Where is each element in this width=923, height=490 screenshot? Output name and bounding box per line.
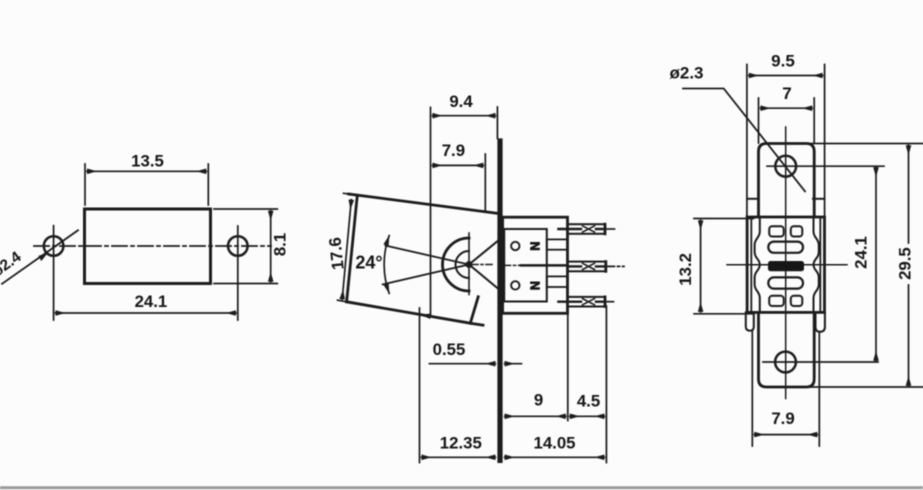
dimension 0.55 (panel thickness) — [429, 340, 521, 364]
rocker bezel (tilted frame) — [347, 194, 498, 325]
dimension 9.4 — [431, 92, 498, 315]
case bottom tab right — [816, 312, 825, 331]
vertical centerline (rear view) — [785, 127, 787, 399]
panel cutout rectangle — [85, 209, 211, 284]
angle arc with arrows — [383, 235, 389, 294]
terminal pin middle — [568, 262, 625, 272]
svg-text:N: N — [528, 281, 542, 290]
mounting hole top (rear view) — [767, 156, 884, 177]
svg-text:4.5: 4.5 — [577, 392, 600, 411]
terminal pin top — [558, 224, 614, 234]
case horizontal centerline — [727, 264, 847, 266]
oval slot upper — [768, 242, 803, 253]
svg-text:ø2.3: ø2.3 — [669, 64, 703, 83]
dimension 12.35 — [420, 308, 496, 463]
dimension 4.5 — [570, 306, 607, 463]
dimension 13.5 — [85, 152, 208, 206]
mounting hole right — [228, 226, 248, 320]
vent slot bottom left — [769, 296, 784, 306]
mounting hole left — [44, 226, 64, 320]
svg-text:14.05: 14.05 — [534, 434, 576, 453]
svg-text:9.5: 9.5 — [771, 52, 795, 71]
dimension 9 — [505, 307, 568, 421]
svg-text:7.9: 7.9 — [442, 141, 465, 160]
case bottom tab left — [746, 312, 754, 330]
dimension 7.9 (side view) — [433, 141, 486, 212]
horizontal centerline (left view) — [34, 245, 271, 247]
svg-text:0.55: 0.55 — [433, 340, 466, 359]
svg-text:7.9: 7.9 — [771, 409, 794, 428]
dimension 17.6 — [325, 193, 351, 302]
marking circle and letter lower — [511, 281, 541, 290]
dimension 24.1 (rear view) — [851, 167, 876, 360]
marking circle and letter upper — [511, 242, 541, 251]
label 24 degrees — [355, 253, 382, 273]
svg-text:N: N — [528, 242, 542, 251]
dimension 8.1 — [214, 209, 290, 284]
vent slot top left — [769, 226, 784, 236]
body centerline — [504, 264, 568, 266]
svg-text:24.1: 24.1 — [851, 236, 870, 269]
dimension 7 — [759, 84, 815, 143]
dimension 29.5 — [895, 145, 914, 386]
dimension 24.1 — [56, 292, 236, 313]
switch case rear outline — [747, 217, 824, 312]
svg-text:13.5: 13.5 — [131, 152, 164, 171]
terminal separator lower — [547, 276, 568, 287]
terminal pin bottom — [558, 297, 613, 307]
mounting plate lower part — [759, 312, 815, 387]
svg-text:12.35: 12.35 — [440, 434, 482, 453]
oval slot lower — [768, 277, 803, 288]
svg-text:24.1: 24.1 — [135, 292, 168, 311]
svg-text:9.4: 9.4 — [449, 92, 473, 111]
dimension 7.9 (rear view) — [752, 332, 819, 447]
page divider rule — [0, 486, 923, 489]
spring clip profile left — [755, 217, 760, 312]
svg-text:13.2: 13.2 — [676, 253, 695, 286]
svg-text:7: 7 — [782, 84, 791, 103]
svg-text:24°: 24° — [355, 253, 382, 273]
spring clip profile right — [814, 217, 819, 312]
vent slot top right — [791, 226, 803, 236]
dimension 9.5 — [747, 52, 825, 218]
dimension 14.05 — [505, 434, 605, 458]
filled center slot — [768, 261, 804, 271]
plate bottom extension line — [810, 386, 923, 388]
leader and label dia 2.3 — [669, 64, 805, 192]
svg-text:29.5: 29.5 — [895, 247, 914, 280]
mounting plate upper part — [759, 144, 815, 218]
svg-text:9: 9 — [534, 391, 543, 410]
case inner side walls — [751, 217, 820, 312]
leader and label dia 2.4 — [0, 230, 78, 283]
switch body inner case — [504, 229, 547, 302]
panel (thick section) — [497, 138, 502, 463]
24 degree throw lines — [383, 246, 469, 285]
plate top extension line — [810, 143, 923, 145]
vent slot bottom right — [791, 296, 803, 306]
mounting hole bottom (rear view) — [763, 352, 878, 373]
case top tabs — [747, 198, 824, 200]
rocker actuator — [443, 233, 498, 295]
svg-text:8.1: 8.1 — [271, 233, 290, 256]
svg-text:17.6: 17.6 — [325, 236, 347, 270]
terminal separator upper — [547, 239, 568, 249]
dimension 13.2 — [676, 219, 754, 314]
switch body outline — [503, 217, 568, 313]
